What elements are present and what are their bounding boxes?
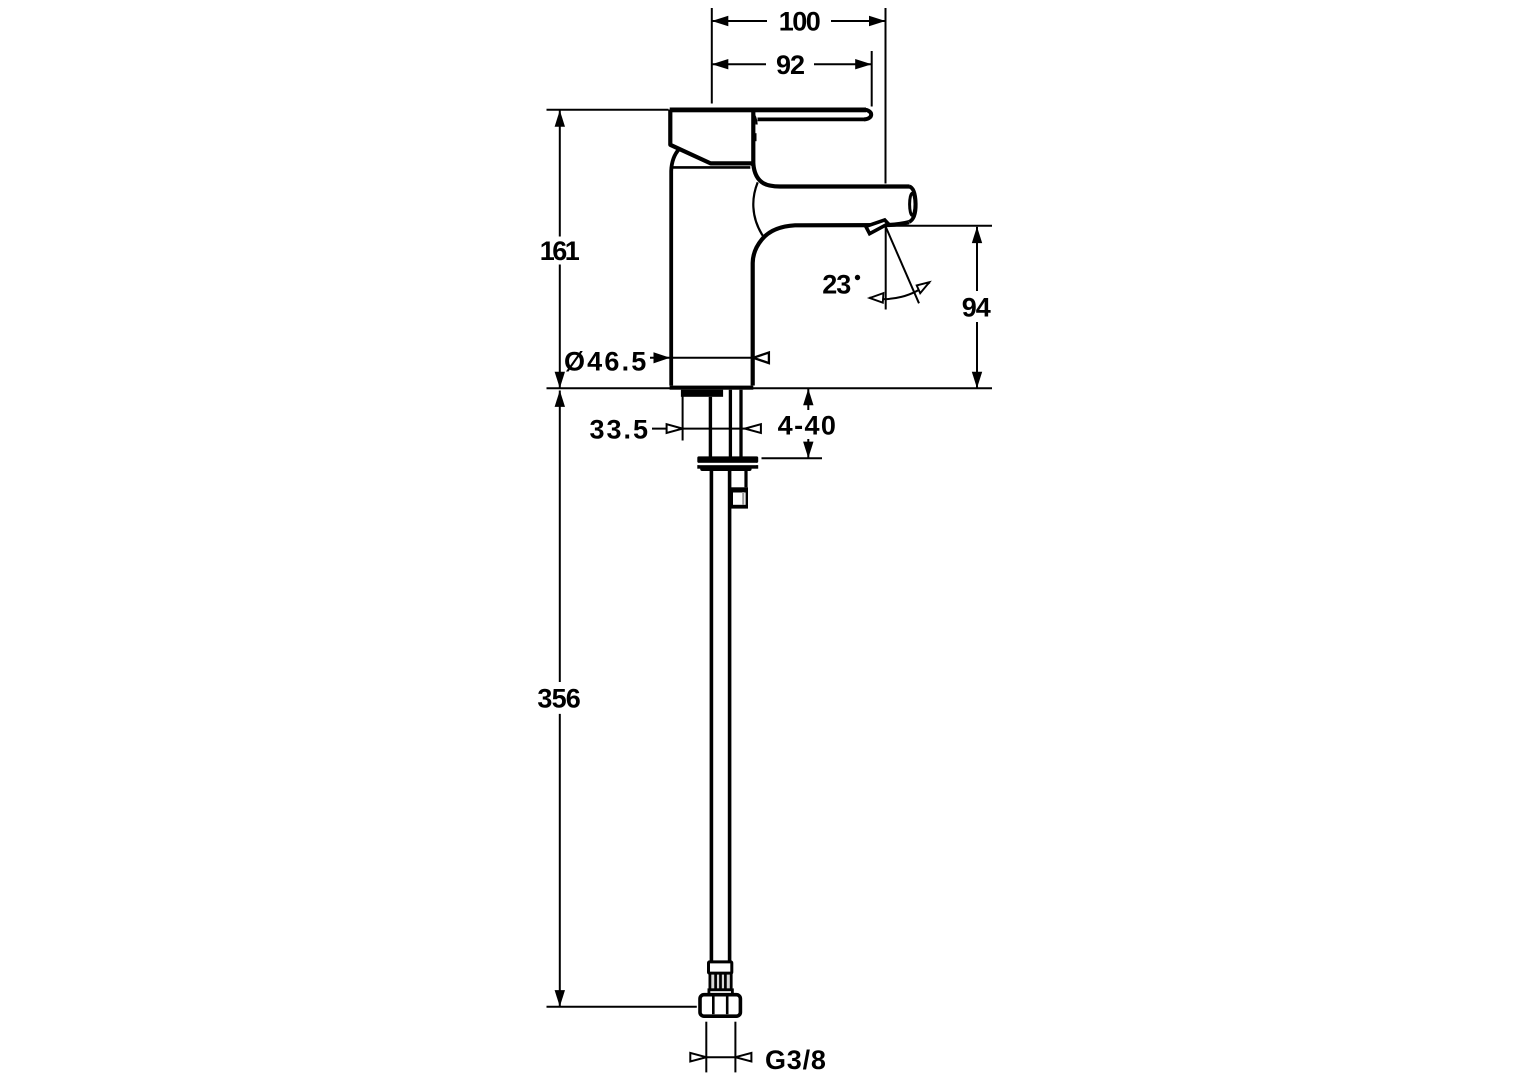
nut face line right <box>726 997 729 1015</box>
hose left wall <box>710 471 714 961</box>
dimension 100 <box>712 7 886 37</box>
shank tube right wall <box>739 390 742 457</box>
svg-text:100: 100 <box>779 7 820 37</box>
dimension 4-40 <box>762 389 838 458</box>
dimension 94 <box>962 227 991 389</box>
rod fitting right wall <box>746 492 748 505</box>
rod fitting bottom band <box>730 505 748 509</box>
dimension 92 <box>712 50 872 80</box>
crimp bar 3 <box>724 973 727 990</box>
aerator face <box>866 220 888 234</box>
shank tube left wall <box>729 390 732 457</box>
body top seam <box>673 166 751 169</box>
extension line left (100/92) <box>711 8 713 104</box>
svg-text:Ø46.5: Ø46.5 <box>564 347 649 377</box>
nut face line left <box>712 997 715 1015</box>
hose crimp <box>710 973 731 990</box>
lever front curve <box>752 113 756 125</box>
body bottom bar <box>670 386 754 390</box>
extension line bottom of 356 <box>547 1006 697 1008</box>
dimension 356 <box>537 390 580 1006</box>
handle body outline <box>670 110 753 164</box>
dimension G3/8 <box>690 1022 827 1075</box>
svg-text:23: 23 <box>822 270 851 300</box>
crimp bar 1 <box>714 973 717 990</box>
svg-text:33.5: 33.5 <box>589 415 650 445</box>
lever underside <box>758 118 865 122</box>
flange lip <box>700 467 751 471</box>
dimension 161 <box>540 110 580 388</box>
rod fitting left wall <box>730 492 733 505</box>
svg-text:161: 161 <box>540 236 580 266</box>
body right corner into spout top <box>753 164 909 187</box>
extension line top of 161 <box>547 109 669 111</box>
svg-text:G3/8: G3/8 <box>765 1045 827 1075</box>
rod fitting gray stripe <box>742 492 744 505</box>
lever top plate <box>670 108 866 113</box>
angle dimension 23deg <box>822 227 929 310</box>
hose band <box>709 990 733 995</box>
flange upper <box>697 456 758 463</box>
body waist curve <box>753 182 764 237</box>
rod fitting top band <box>730 487 748 492</box>
svg-text:94: 94 <box>962 292 991 322</box>
handle right edge <box>751 110 755 167</box>
rod below flange <box>744 471 747 487</box>
spout end ellipse <box>910 193 915 215</box>
flange lower <box>697 465 758 469</box>
shank band <box>681 390 723 397</box>
hose collar <box>709 962 732 973</box>
extension line right of 100 <box>885 8 887 184</box>
lever end cap <box>864 110 871 120</box>
extension line right of 92 <box>871 51 873 107</box>
crimp bar 2 <box>719 973 722 990</box>
dimension D46.5 <box>564 347 769 377</box>
body left edge <box>671 149 679 386</box>
extension line top of 94 <box>891 225 992 227</box>
svg-text:4-40: 4-40 <box>778 411 838 441</box>
svg-text:356: 356 <box>537 683 580 713</box>
svg-text:92: 92 <box>776 50 804 80</box>
spout end cap <box>909 187 916 223</box>
nut G3/8 <box>700 995 740 1017</box>
handle pivot dash <box>753 133 757 141</box>
dimension 33.5 <box>589 394 760 445</box>
flange stripe <box>699 463 756 465</box>
hose right wall <box>728 471 732 961</box>
shank stud <box>709 397 712 457</box>
spout bottom and body right edge <box>753 222 909 385</box>
baseline mounting surface <box>547 387 993 389</box>
